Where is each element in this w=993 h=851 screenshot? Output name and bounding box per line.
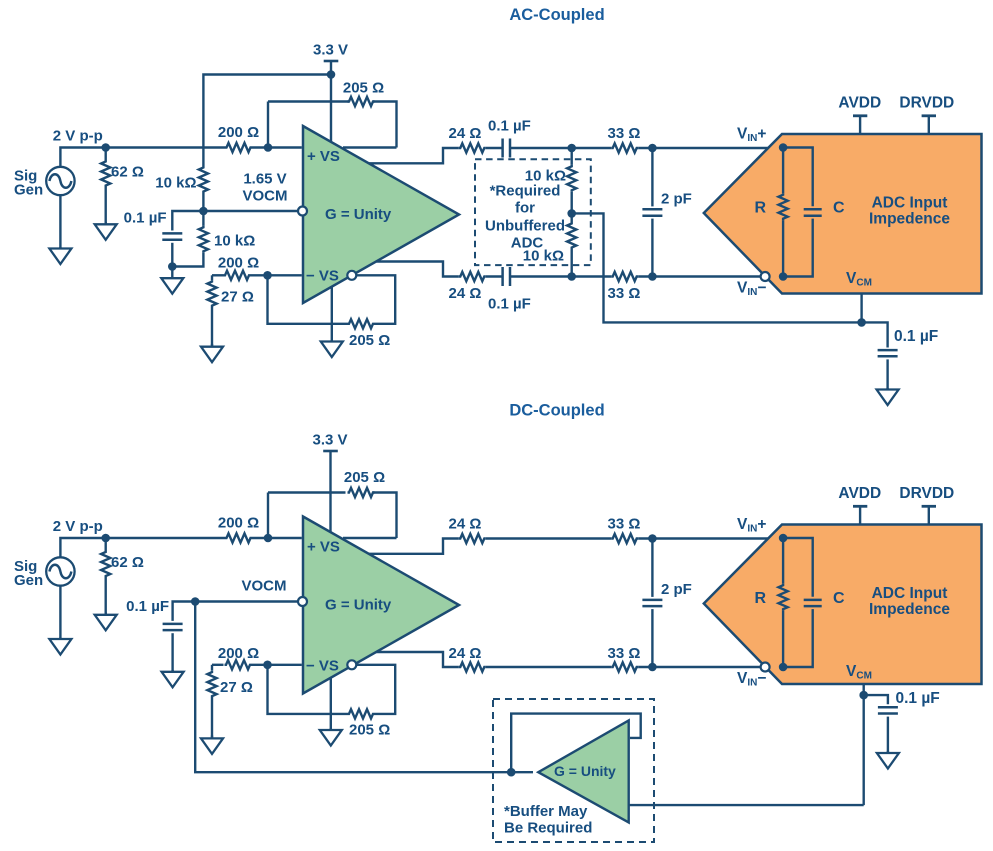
svg-text:0.1 µF: 0.1 µF [488,296,531,313]
wire [486,666,611,668]
pin VIN- pin (DC) [761,663,770,672]
wire [486,147,502,149]
label VIN+ label [737,126,766,145]
ADC U4 input-impedance block [704,525,982,685]
svg-text:205 Ω: 205 Ω [349,332,390,349]
wire [571,192,573,214]
pin VOCM pin [298,207,307,216]
wire [267,102,269,148]
label 2 pF (DC) [661,581,692,598]
capacitor 2 pF filter [642,209,662,215]
node buffer input node [507,768,516,777]
wire [886,359,888,389]
node VOCM node (DC) [191,597,200,606]
resistor 33 Ω upper (DC) [611,534,638,543]
label 200 Ω upper [218,124,259,141]
svg-text:0.1 µF: 0.1 µF [896,690,940,707]
pin DRVDD [899,95,954,135]
label Sig Gen 2 line1 [14,558,37,575]
ground 62Ω ground (DC) [95,613,117,631]
capacitor 0.1 µF VOCM bypass [162,233,182,239]
svg-text:205 Ω: 205 Ω [343,80,384,97]
svg-text:24 Ω: 24 Ω [449,516,482,533]
svg-text:R: R [754,200,766,217]
label 205 Ω upper (DC) [344,469,385,486]
svg-text:24 Ω: 24 Ω [449,285,482,302]
source VS2 sine generator [46,557,74,585]
resistor 62Ω termination (DC) [101,551,110,578]
label 2 pF [661,190,692,207]
label 24 Ω upper (DC) [449,516,482,533]
svg-text:Be Required: Be Required [504,820,592,837]
svg-text:0.1 µF: 0.1 µF [488,118,531,135]
node bias ground node [168,262,177,271]
wire [172,253,203,267]
svg-text:24 Ω: 24 Ω [449,645,482,662]
label ADC Input [872,194,948,211]
resistor R ADC internal [779,193,788,220]
svg-text:*Buffer May: *Buffer May [504,803,588,820]
label 2 V p-p (DC) [53,518,103,535]
label VIN&#8722; label (DC) [737,670,766,689]
svg-text:C: C [833,200,845,217]
svg-text:DRVDD: DRVDD [899,95,954,112]
wire [783,219,813,277]
label 10 kΩ upper [155,175,196,192]
wire [268,100,349,102]
label Impedence [869,210,950,227]
ground amplifier ground (DC) [320,728,342,746]
label 62 Ω [111,164,144,181]
pin AVDD [838,95,881,135]
svg-text:2 pF: 2 pF [661,190,692,207]
node upper divider node [567,144,576,153]
label 0.1 µF upper [488,118,531,135]
ground VCM ground (DC) [877,751,899,769]
wire [212,274,224,276]
node VIN- node [779,272,788,281]
svg-text:200 Ω: 200 Ω [218,124,259,141]
wire [887,717,889,753]
wire [60,148,225,168]
wire [211,665,213,671]
wire [252,146,302,148]
pin AVDD (DC) [838,485,881,525]
resistor 10 kΩ lower bias [199,226,208,253]
svg-text:+ VS: + VS [307,148,340,165]
label R internal (DC) [754,590,766,607]
wire [343,146,397,148]
label + VS (DC) [307,539,340,556]
capacitor 0.1 µF VCM decoupling [878,350,898,356]
wire [212,664,224,666]
wire [211,307,213,347]
svg-text:− VS: − VS [306,657,339,674]
svg-text:Impedence: Impedence [869,601,950,618]
node VCM node (DC) [859,691,868,700]
wire [59,195,61,249]
wire [195,602,533,773]
wire [651,148,653,206]
capacitor 2 pF filter (DC) [642,600,662,606]
svg-text:33 Ω: 33 Ω [608,516,641,533]
capacitor 0.1 µF upper coupling [503,139,510,158]
label 10 kΩ divider upper [525,168,566,185]
label + VS [307,148,340,165]
label &#8722; VS [306,268,339,285]
resistor 10 kΩ divider upper [567,165,576,192]
wire [268,669,348,714]
wire [571,148,573,165]
svg-text:VOCM: VOCM [243,188,288,205]
svg-text:Unbuffered: Unbuffered [485,218,565,235]
label 0.1 µF VCM (DC) [896,690,940,707]
label 62 Ω (DC) [111,554,144,571]
svg-text:3.3 V: 3.3 V [312,432,347,449]
ground 27 Ω ground [201,344,223,362]
label VIN+ label (DC) [737,516,766,535]
resistor 27 Ω (DC) [207,671,216,698]
ground bias ground [161,267,183,294]
svg-text:10 kΩ: 10 kΩ [214,233,255,250]
label Impedence (DC) [869,601,950,618]
ADC U2 input-impedance block [704,134,982,294]
wire [377,262,459,277]
svg-text:VIN+: VIN+ [737,126,766,145]
ground amplifier ground [321,340,343,357]
power +3.3V DC amp supply [312,432,347,533]
label 10 kΩ divider lower [523,248,564,265]
svg-text:2 pF: 2 pF [661,581,692,598]
wire [373,102,397,148]
svg-text:ADC Input: ADC Input [872,194,948,211]
resistor 24 Ω upper (DC) [459,534,486,543]
svg-text:62 Ω: 62 Ω [111,164,144,181]
label C internal [833,200,845,217]
wire [267,493,269,539]
wire [356,665,395,714]
wire [104,578,106,615]
svg-text:G = Unity: G = Unity [325,206,392,223]
wire [511,147,611,149]
node VIN+ node [779,143,788,152]
svg-text:Impedence: Impedence [869,210,950,227]
svg-text:for: for [515,200,535,217]
resistor 205 Ω lower feedback [348,319,375,328]
svg-text:R: R [754,590,766,607]
wire [369,148,459,163]
pin -OUT pin [347,271,356,280]
wire [571,249,573,277]
label 24 Ω upper [449,125,482,142]
wire [195,600,298,602]
pin VIN- pin [761,272,770,281]
svg-text:200 Ω: 200 Ω [218,255,259,272]
wire [251,274,302,276]
label VOCM (DC) [242,578,287,595]
svg-text:3.3 V: 3.3 V [313,42,348,59]
wire [638,147,783,149]
resistor 200 Ω lower input [224,271,251,280]
label *Buffer May [504,803,588,820]
op-amp U5 unity-gain buffer [538,721,628,823]
svg-text:AC-Coupled: AC-Coupled [509,6,604,24]
ground VCM ground [877,388,899,405]
wire [211,698,213,739]
wire [638,275,783,277]
node input node (DC) [101,534,110,543]
wire [171,243,173,267]
op-amp U1 fully differential amplifier [303,126,459,303]
svg-text:*Required: *Required [490,183,561,200]
node VIN+ node (DC) [779,534,788,543]
label G = Unity buffer [554,763,616,779]
wire [202,193,204,211]
label 33 Ω upper (DC) [608,516,641,533]
wire [104,187,106,224]
source VS1 sine generator [46,167,74,195]
ground generator ground (DC) [49,638,71,655]
capacitor C ADC internal (DC) [804,600,822,606]
label Unbuffered [485,218,565,235]
resistor 205 Ω lower feedback (DC) [348,709,375,718]
wire [211,275,213,280]
wire [203,210,298,212]
svg-text:27 Ω: 27 Ω [221,288,254,305]
label 0.1 µF lower [488,296,531,313]
node supply node [327,70,336,79]
dashed box unbuffered-ADC option [475,159,591,265]
ground VOCM cap ground (DC) [162,670,184,687]
resistor 10 kΩ divider lower [567,222,576,249]
wire [104,148,106,161]
resistor 33 Ω lower (DC) [611,662,638,671]
wire [203,75,331,167]
svg-text:62 Ω: 62 Ω [111,554,144,571]
node lower divider node [567,272,576,281]
label VIN&#8722; label [737,280,766,299]
wire [572,213,862,322]
svg-text:10 kΩ: 10 kΩ [155,175,196,192]
svg-text:VIN−: VIN− [737,280,766,299]
wire [331,287,333,342]
op-amp U3 fully differential amplifier [303,517,459,694]
wire [173,602,196,621]
node VOCM node [199,207,208,216]
svg-text:G = Unity: G = Unity [325,597,392,614]
svg-text:ADC Input: ADC Input [872,585,948,602]
pin VOCM pin (DC) [298,597,307,606]
resistor 200 Ω lower input (DC) [225,660,252,669]
wire [782,148,784,194]
label Sig Gen line1 [14,168,37,185]
node divider mid node [567,209,576,218]
svg-text:G = Unity: G = Unity [554,763,616,779]
capacitor 0.1 µF lower coupling [503,267,510,286]
wire [486,537,611,539]
resistor 200 Ω upper input (DC) [225,533,252,542]
svg-text:27 Ω: 27 Ω [220,679,253,696]
resistor 24 Ω lower (DC) [459,662,486,671]
wire [356,275,395,324]
wire [782,611,784,667]
resistor 62Ω termination [101,160,110,187]
label 33 Ω upper [608,125,641,142]
node -IN node (DC) [263,661,272,670]
label VOCM value [243,188,288,205]
wire [511,714,641,773]
svg-text:VIN−: VIN− [737,670,766,689]
label 0.1 µF VOCM (DC) [126,598,169,615]
label &#8722; VS (DC) [306,657,339,674]
node VCM node [857,318,866,327]
capacitor 0.1 µF VOCM (DC) [163,624,183,630]
wire [377,652,459,667]
svg-text:2 V p-p: 2 V p-p [53,128,103,145]
resistor 33 Ω lower [611,272,638,281]
svg-text:+ VS: + VS [307,539,340,556]
wire [268,491,346,493]
resistor 200 Ω upper input [225,143,252,152]
node filter upper node [648,144,657,153]
svg-text:DC-Coupled: DC-Coupled [509,402,604,420]
label ADC option [511,235,544,252]
label 1.65 V [243,171,286,188]
wire [783,609,813,667]
label 205 Ω lower (DC) [349,722,390,739]
svg-text:− VS: − VS [306,268,339,285]
wire [330,677,332,730]
label 27 Ω [221,288,254,305]
wire [268,279,348,324]
wire [59,585,61,639]
label G = Unity U3 [325,597,392,614]
svg-text:205 Ω: 205 Ω [344,469,385,486]
wire [782,220,784,276]
power +3.3V AC amp supply [313,42,348,142]
wire [783,148,813,207]
resistor 205 Ω upper feedback (DC) [348,488,375,497]
wire [571,213,573,222]
label 200 Ω lower [218,255,259,272]
wire [343,537,397,539]
wire [104,538,106,551]
node filter upper node (DC) [648,534,657,543]
svg-text:33 Ω: 33 Ω [608,645,641,662]
wire [864,695,888,704]
wire [629,804,864,806]
label Be Required [504,820,592,837]
dashed box optional buffer [493,699,654,842]
wire [369,539,459,554]
svg-text:205 Ω: 205 Ω [349,722,390,739]
wire [486,275,502,277]
svg-text:0.1 µF: 0.1 µF [126,598,169,615]
label G = Unity U1 [325,206,392,223]
svg-text:10 kΩ: 10 kΩ [523,248,564,265]
label VCM label (DC) [846,663,872,682]
resistor R ADC internal (DC) [779,584,788,611]
wire [638,666,783,668]
wire [373,493,397,539]
wire [252,537,302,539]
svg-text:200 Ω: 200 Ω [218,645,259,662]
capacitor 0.1 µF VCM decoupling (DC) [878,707,898,713]
svg-text:DRVDD: DRVDD [899,485,954,502]
resistor 10 kΩ upper bias [199,166,208,193]
pin DRVDD (DC) [899,485,954,525]
wire [511,275,611,277]
svg-text:33 Ω: 33 Ω [608,125,641,142]
wire [202,211,204,226]
wire [60,538,225,558]
label 33 Ω lower [608,285,641,302]
capacitor C ADC internal [804,209,822,215]
wire [651,539,653,597]
label *Required [490,183,561,200]
node -IN node [263,271,272,280]
wire [172,211,203,231]
label 27 Ω (DC) [220,679,253,696]
label 205 Ω upper [343,80,384,97]
wire [782,538,784,584]
svg-text:AVDD: AVDD [838,95,881,112]
ground generator ground [49,247,71,264]
wire [863,695,865,805]
label 200 Ω lower (DC) [218,645,259,662]
svg-text:200 Ω: 200 Ω [218,515,259,532]
label 2 V p-p [53,128,103,145]
svg-text:33 Ω: 33 Ω [608,285,641,302]
svg-text:Gen: Gen [14,182,43,199]
label R internal [754,200,766,217]
ground 62Ω ground [95,222,117,240]
svg-text:0.1 µF: 0.1 µF [894,328,938,345]
label 24 Ω lower [449,285,482,302]
node VIN- node (DC) [779,663,788,672]
node input node [101,143,110,152]
wire [863,684,865,695]
label 0.1 µF VCM [894,328,938,345]
resistor 24 Ω upper [459,143,486,152]
svg-text:2 V p-p: 2 V p-p [53,518,103,535]
svg-text:VOCM: VOCM [242,578,287,595]
svg-text:VIN+: VIN+ [737,516,766,535]
wire [171,633,173,672]
label VCM label [846,270,872,289]
label title AC-Coupled [509,6,604,24]
resistor 27 Ω [207,280,216,307]
resistor 24 Ω lower [459,272,486,281]
node +IN node (DC) [264,534,273,543]
label C internal (DC) [833,590,845,607]
wire [651,609,653,667]
label ADC Input (DC) [872,585,948,602]
label 205 Ω lower [349,332,390,349]
label 24 Ω lower (DC) [449,645,482,662]
svg-text:24 Ω: 24 Ω [449,125,482,142]
resistor 205 Ω upper feedback [348,97,375,106]
wire [651,219,653,277]
pin -OUT pin (DC) [347,660,356,669]
svg-text:AVDD: AVDD [838,485,881,502]
ground 27 Ω ground (DC) [201,736,223,754]
wire [862,322,888,347]
wire [252,664,302,666]
svg-text:C: C [833,590,845,607]
svg-text:1.65 V: 1.65 V [243,171,286,188]
label for [515,200,535,217]
